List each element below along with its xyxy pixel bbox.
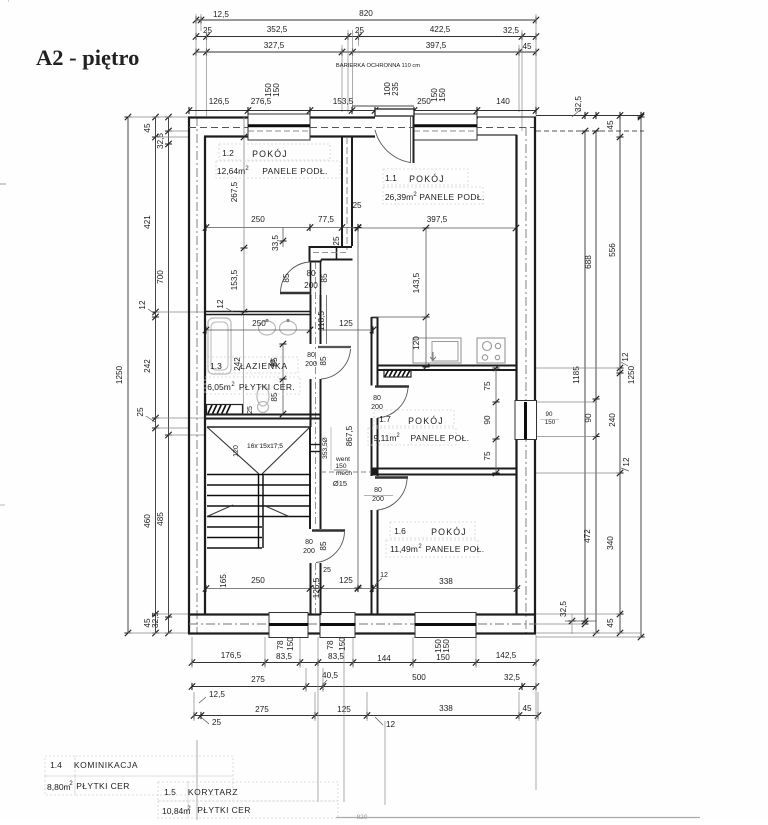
svg-text:11,49m: 11,49m [390,544,418,554]
corridor dim 118,5 [326,295,328,344]
svg-text:267,5: 267,5 [230,181,239,202]
svg-text:397,5: 397,5 [427,215,448,224]
svg-text:460: 460 [143,514,152,528]
svg-text:33,5: 33,5 [271,235,280,251]
bathroom dim 85/85 [282,344,284,414]
corridor east wall lower [310,563,312,615]
top dimension row 3 (327,5/397,5/45) [196,51,536,53]
legend table 1.5 KORYTARZ [158,782,188,801]
balcony door leaf [413,116,415,163]
svg-text:25: 25 [323,567,331,574]
top dimension row 4 (window dims) [189,110,536,112]
dashed wall-axis extension top right [536,130,644,132]
svg-text:25: 25 [136,407,145,417]
svg-text:200: 200 [304,281,318,290]
corridor dim 867,5 [357,228,359,589]
svg-text:200: 200 [371,404,383,411]
svg-text:1.5: 1.5 [164,787,176,797]
divider rooms 1.7|1.6 [371,468,516,470]
bathroom top wall [205,311,310,313]
washbasin 2 [280,321,297,335]
svg-text:200: 200 [303,548,315,555]
svg-text:1250: 1250 [115,365,124,384]
svg-text:700: 700 [156,270,165,284]
svg-text:PANELE PODŁ.: PANELE PODŁ. [419,192,485,202]
room 1.1 dim 397,5 [352,227,516,229]
svg-text:276,5: 276,5 [251,97,272,106]
svg-text:25: 25 [203,26,213,35]
svg-text:275: 275 [251,675,265,684]
top dimension row 1 (12,5 / 820) [196,19,536,21]
svg-text:went: went [335,456,350,463]
scan artifact marks [8,0,10,2]
svg-text:POKÓJ: POKÓJ [252,149,288,159]
svg-text:85: 85 [319,356,328,366]
svg-text:421: 421 [143,215,152,229]
svg-text:Ø15: Ø15 [333,479,347,488]
svg-text:1.6: 1.6 [394,526,406,536]
svg-text:90: 90 [584,413,593,423]
svg-text:40,5: 40,5 [322,671,338,680]
window W1 150x150 room 1.2 [248,114,310,140]
svg-text:235: 235 [391,82,400,96]
svg-text:PANELE POŁ.: PANELE POŁ. [410,433,469,443]
svg-text:12: 12 [380,572,388,579]
top exterior wall inner edge [204,135,249,137]
svg-text:397,5: 397,5 [426,41,447,50]
svg-text:338: 338 [439,704,453,713]
svg-text:32,5: 32,5 [559,601,568,617]
svg-text:BARIERKA OCHRONNA 110 cm: BARIERKA OCHRONNA 110 cm [336,63,420,69]
svg-text:150: 150 [286,637,295,651]
top exterior wall outer edge [188,116,375,118]
svg-text:150: 150 [442,639,451,653]
right chain (688/90/472) [595,131,597,633]
window W6 150x150 room 1.6 [415,613,476,638]
bathroom radiator [207,405,243,415]
svg-text:120: 120 [412,336,421,350]
right chain (1185) [584,131,586,624]
svg-text:45: 45 [143,123,152,133]
stair treads [207,474,310,476]
bathroom bottom wall [204,414,321,416]
room 1.2 dims 267,5/153,5 [243,117,245,312]
svg-text:16x 15x17,5: 16x 15x17,5 [247,443,283,450]
svg-text:POKÓJ: POKÓJ [431,527,467,537]
svg-text:150: 150 [338,637,347,651]
svg-text:PANELE PODŁ.: PANELE PODŁ. [262,166,328,176]
svg-text:12,64m: 12,64m [217,166,245,176]
svg-text:78: 78 [276,640,285,650]
svg-text:242: 242 [143,359,152,373]
chimney wall beside stairs [309,427,311,529]
svg-text:45: 45 [522,704,532,713]
svg-text:77,5: 77,5 [318,215,334,224]
svg-text:6,05m: 6,05m [207,382,231,392]
svg-text:12: 12 [216,299,225,309]
bathroom dim 242 [243,315,245,414]
svg-text:200: 200 [372,496,384,503]
svg-text:12: 12 [622,457,631,467]
svg-text:KOMINIKACJA: KOMINIKACJA [74,760,138,770]
right exterior wall [534,117,536,634]
interior dim row y588 (165/250/126,5/125/12/338) [206,588,520,590]
room 1.1 labels [383,169,468,185]
svg-text:85: 85 [319,541,328,551]
svg-text:126,5: 126,5 [209,97,230,106]
svg-text:153,5: 153,5 [333,97,354,106]
svg-text:688: 688 [584,255,593,269]
balcony railing line [352,105,414,107]
svg-text:26,39m: 26,39m [385,192,413,202]
svg-text:POKÓJ: POKÓJ [408,416,444,426]
room 1.7 window dims 75/90/75 [495,368,497,473]
svg-text:80: 80 [306,269,316,278]
svg-text:90: 90 [483,415,492,425]
svg-text:75: 75 [483,451,492,461]
left exterior wall [188,117,190,634]
svg-text:9,11m: 9,11m [374,433,397,443]
window W3 90x150 room 1.7 right wall [515,401,537,440]
svg-text:90: 90 [546,411,553,418]
svg-text:820: 820 [357,814,368,820]
svg-text:25: 25 [352,201,362,210]
top extension lines [195,14,197,116]
top-right mini chain (32,5/45) [536,115,641,117]
room 1.2 labels [219,144,330,160]
svg-text:485: 485 [156,512,165,526]
radiator at kitchen wall [384,370,411,378]
left chain A (1250) [127,117,129,633]
right extension lines [536,367,620,369]
room 1.6 labels [390,522,475,538]
connector line y317 [373,316,426,318]
svg-text:472: 472 [583,529,592,543]
svg-text:353,5Ø: 353,5Ø [322,437,329,459]
dashed axis through 1.6 divider to corridor [321,471,371,473]
corridor west wall / rooms 1.7,1.6 wall [371,317,373,386]
svg-text:12,5: 12,5 [213,10,229,19]
door D3 80/200 corridor [312,529,345,531]
svg-text:240: 240 [608,413,617,427]
svg-text:32,5: 32,5 [156,133,165,149]
chimney jog wall [310,246,353,248]
svg-text:422,5: 422,5 [430,25,451,34]
bottom exterior wall [188,632,536,634]
svg-text:165: 165 [219,574,228,588]
svg-text:85: 85 [270,392,279,402]
svg-text:45: 45 [606,618,615,628]
svg-text:83,5: 83,5 [276,652,292,661]
svg-text:125: 125 [339,319,353,328]
svg-text:143,5: 143,5 [412,272,421,293]
stair flight diagonals [207,427,259,474]
svg-text:150: 150 [436,653,450,662]
svg-text:25: 25 [247,406,254,414]
svg-text:867,5: 867,5 [345,425,354,446]
stair cut marks [207,505,233,517]
svg-text:1.2: 1.2 [222,148,234,158]
svg-text:250: 250 [251,215,265,224]
svg-text:12: 12 [386,720,396,729]
stair center rail [258,474,260,548]
window W2 150x150 room 1.1 [414,114,477,140]
bottom extension lines [191,637,193,668]
svg-text:500: 500 [412,673,426,682]
svg-text:1185: 1185 [572,366,581,384]
washbasin 1 [259,321,276,335]
wall divider rooms 1.2|1.1 [341,137,343,247]
balcony door swing arc [375,130,411,163]
svg-text:KORYTARZ: KORYTARZ [188,787,238,797]
svg-text:25: 25 [332,236,341,246]
legend table 1.4 KOMINIKACJA [45,756,75,776]
corridor east wall upper (with doors) [310,262,312,295]
window W4 78x150 bottom [269,613,308,638]
kitchen wall [377,365,516,367]
bathroom dim 250 [206,329,310,331]
svg-text:338: 338 [439,577,453,586]
toilet [257,386,269,406]
window W5 78x150 bottom [320,613,355,638]
room 1.2 dim 250/77,5 [206,227,358,229]
svg-text:820: 820 [359,9,373,18]
svg-text:150: 150 [272,83,281,97]
svg-text:80: 80 [374,487,382,494]
top dimension row 2 (25/352,5/25/422,5/32,5) [196,36,536,38]
svg-text:1.4: 1.4 [50,760,62,770]
svg-text:85: 85 [282,273,291,283]
right chain (1250) [640,116,642,638]
left chain B (45/421/12/242/25/460/45) [155,117,157,633]
vent duct box in chimney [310,444,321,446]
svg-text:PŁYTKI CER.: PŁYTKI CER. [239,382,295,392]
svg-text:PŁYTKI CER: PŁYTKI CER [76,781,130,791]
svg-text:12,5: 12,5 [209,690,225,699]
svg-text:80: 80 [373,395,381,402]
svg-text:PŁYTKI CER: PŁYTKI CER [197,805,251,815]
wall corner fill 1.6 divider [371,469,378,475]
svg-text:PANELE POŁ.: PANELE POŁ. [425,544,484,554]
svg-text:1250: 1250 [627,365,636,384]
svg-text:32,5: 32,5 [504,673,520,682]
kitchen dim 120 [425,317,427,367]
svg-text:1.7: 1.7 [379,414,391,424]
svg-text:340: 340 [606,536,615,550]
svg-text:12: 12 [138,300,147,310]
room 1.7 labels [374,410,454,426]
bathtub [208,318,231,374]
svg-text:POKÓJ: POKÓJ [409,174,445,184]
kitchen counter sink [413,338,461,363]
svg-text:126,5: 126,5 [312,577,321,598]
svg-text:10,84m: 10,84m [162,806,190,816]
svg-text:12: 12 [621,352,630,362]
svg-text:125: 125 [339,576,353,585]
top wall axis dashes [189,127,536,129]
svg-text:275: 275 [255,705,269,714]
door D5 80/200 room 1.6 [375,476,408,478]
door D4 80/200 room 1.7 [375,385,409,387]
svg-text:118,5: 118,5 [317,311,326,331]
svg-text:mech: mech [336,470,352,477]
svg-text:80: 80 [307,352,315,359]
svg-text:1.1: 1.1 [385,173,397,183]
svg-text:80: 80 [305,539,313,546]
left chain C (32,5/700/485/32,5) [168,117,170,633]
svg-text:83,5: 83,5 [328,652,344,661]
dim 33,5 [282,228,284,248]
svg-text:150: 150 [335,463,346,470]
bottom row B (275/40,5/500/32,5) [192,686,536,688]
svg-text:250: 250 [251,576,265,585]
svg-text:8,80m: 8,80m [47,782,71,792]
svg-text:78: 78 [326,640,335,650]
svg-text:176,5: 176,5 [221,651,242,660]
svg-text:45: 45 [606,120,615,130]
svg-text:144: 144 [377,654,391,663]
door D1 80/200 (room 1.2 nook to corridor) [280,292,311,294]
svg-text:327,5: 327,5 [264,41,285,50]
svg-text:142,5: 142,5 [496,651,517,660]
right chain (45/556/12/240/12/340/45) [619,116,621,634]
svg-text:A2 - piętro: A2 - piętro [36,45,139,70]
svg-text:150: 150 [545,419,556,426]
room 1.1 dim 143,5 [425,228,427,317]
balcony door threshold [375,109,414,116]
svg-text:352,5: 352,5 [267,25,288,34]
left extension lines [128,116,189,118]
svg-text:45: 45 [522,42,532,51]
svg-text:ŁAZIENKA: ŁAZIENKA [240,361,288,371]
svg-text:1.3: 1.3 [210,361,222,371]
svg-text:75: 75 [483,381,492,391]
door D2 80/200 bathroom [318,346,351,348]
room 1.3 labels [208,357,298,373]
svg-text:250: 250 [252,319,266,328]
svg-text:140: 140 [496,97,510,106]
kitchen cooktop [477,338,505,363]
svg-text:25: 25 [212,718,222,727]
svg-text:85: 85 [320,273,329,283]
svg-text:32,5: 32,5 [503,26,519,35]
corridor dim 125 (y330) [321,329,373,331]
svg-text:25: 25 [355,26,365,35]
svg-text:200: 200 [305,361,317,368]
bottom row A (176,5/83,5/83,5/144/150/142,5) [192,662,536,664]
stairwell outline [207,426,310,428]
svg-text:556: 556 [608,243,617,257]
bottom row C (275/125/338/45) [194,715,538,717]
svg-text:153,5: 153,5 [230,269,239,290]
svg-text:32,5: 32,5 [574,96,583,112]
svg-text:120: 120 [233,445,240,457]
svg-text:150: 150 [438,88,447,102]
balcony parapet top right [477,116,536,118]
